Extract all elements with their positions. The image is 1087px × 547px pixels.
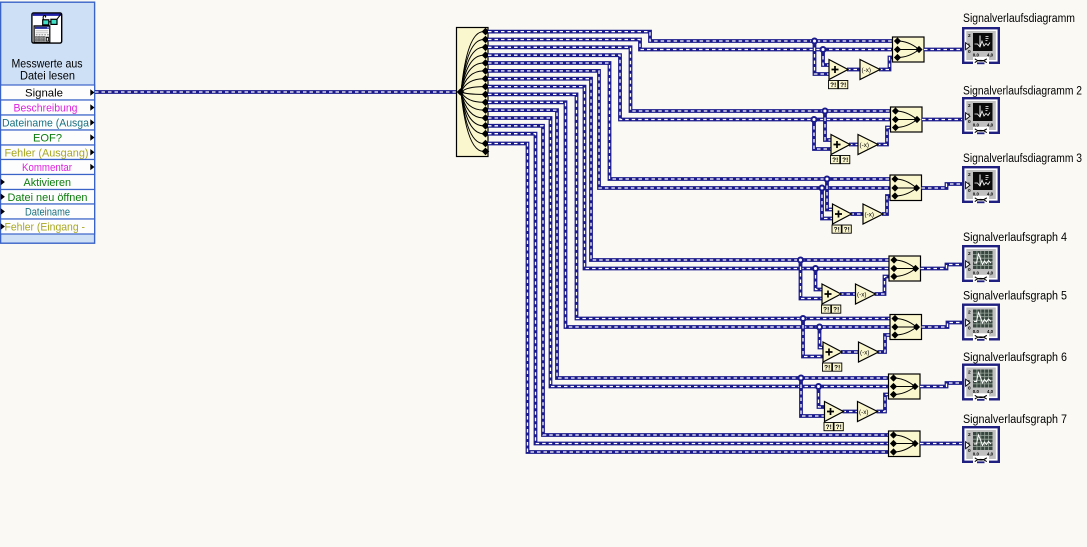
- wire splitter row 9: [488, 94, 895, 318]
- svg-text:(-x): (-x): [860, 349, 869, 356]
- svg-text:0: 0: [968, 49, 971, 55]
- express VI icon box: [32, 13, 62, 43]
- svg-text:0,0: 0,0: [973, 329, 980, 334]
- junction J1a: [812, 39, 817, 44]
- svg-text:0,0: 0,0: [973, 122, 980, 127]
- wire branch bottom chain 6: [819, 387, 825, 408]
- express VI Messwerte aus Datei lesen (body): [1, 2, 95, 243]
- wire branch top chain 3: [827, 179, 833, 210]
- junction J4b: [813, 266, 818, 271]
- svg-text:?!: ?!: [836, 424, 842, 431]
- label Signalverlaufsgraph 6: [963, 352, 1067, 364]
- wire branch bottom chain 3: [822, 188, 833, 219]
- merge signals M7: [889, 431, 921, 457]
- svg-text:(-x): (-x): [862, 67, 871, 74]
- junction J6b: [816, 384, 821, 389]
- junction J2a: [823, 109, 828, 114]
- svg-text:Fehler (Eingang -: Fehler (Eingang -: [5, 221, 86, 233]
- wire splitter row 13: [488, 126, 893, 435]
- svg-text:Fehler (Ausgang): Fehler (Ausgang): [5, 147, 89, 159]
- wire splitter row 15: [488, 144, 893, 453]
- svg-text:Signalverlaufsgraph 6: Signalverlaufsgraph 6: [963, 352, 1067, 364]
- svg-text:2: 2: [968, 172, 971, 178]
- wire splitter row 3: [488, 47, 895, 111]
- wire branch top chain 2: [825, 111, 831, 140]
- label Signalverlaufsgraph 4: [963, 232, 1068, 244]
- svg-text:4,0: 4,0: [987, 451, 994, 456]
- wire scale to merge chain 2: [877, 128, 896, 145]
- label Signalverlaufsdiagramm 2: [963, 85, 1082, 97]
- svg-text:2: 2: [968, 432, 971, 438]
- scale node S5: [859, 342, 879, 362]
- wire merge to chart 4: [921, 265, 963, 269]
- wire splitter row 4: [488, 55, 895, 119]
- svg-text:0,0: 0,0: [973, 52, 980, 57]
- svg-text:0,0: 0,0: [973, 451, 980, 456]
- wire branch bottom chain 1: [823, 50, 829, 66]
- label Signalverlaufsgraph 5: [963, 290, 1067, 302]
- svg-text:?!: ?!: [840, 82, 846, 89]
- svg-text:4,0: 4,0: [987, 389, 994, 394]
- wire splitter row 7: [488, 79, 894, 260]
- wire branch top chain 4: [801, 260, 823, 299]
- output row Signale: [1, 85, 95, 100]
- svg-text:2: 2: [968, 310, 971, 316]
- output row Fehler (Ausgang): [1, 145, 95, 160]
- waveform chart terminal Signalverlaufsdiagramm 2: [962, 97, 1000, 134]
- junction J6a: [799, 376, 804, 381]
- wire branch bottom chain 5: [820, 327, 824, 348]
- svg-text:Signalverlaufsdiagramm 3: Signalverlaufsdiagramm 3: [963, 153, 1082, 165]
- svg-text:?!: ?!: [832, 157, 838, 164]
- svg-text:0,0: 0,0: [973, 191, 980, 196]
- junction J4a: [798, 258, 803, 263]
- merge signals M2: [891, 107, 923, 132]
- svg-text:Aktivieren: Aktivieren: [24, 177, 72, 189]
- add node A6: [825, 402, 844, 422]
- add node A1: [829, 60, 848, 80]
- wire add to scale chain 3: [851, 212, 866, 216]
- wire branch bottom chain 4: [816, 269, 823, 290]
- svg-text:?!: ?!: [824, 365, 830, 372]
- scale node S3: [863, 204, 883, 224]
- wire splitter row 2: [488, 40, 897, 50]
- svg-text:Dateiname: Dateiname: [25, 206, 70, 218]
- svg-text:?!: ?!: [823, 307, 829, 314]
- scale node S2: [858, 135, 878, 155]
- scale node S1: [860, 60, 880, 80]
- coercion markers A3: [832, 225, 851, 234]
- coercion markers A6: [824, 423, 843, 432]
- wire branch top chain 6: [801, 378, 825, 416]
- wire scale to merge chain 1: [879, 58, 898, 70]
- svg-text:?!: ?!: [834, 227, 840, 234]
- junction J3a: [825, 177, 830, 182]
- scale node S6: [858, 402, 878, 422]
- wire add to scale chain 1: [847, 68, 862, 72]
- merge signals M3: [890, 175, 922, 201]
- waveform chart terminal Signalverlaufsgraph 7: [962, 426, 1000, 463]
- waveform chart terminal Signalverlaufsgraph 4: [962, 245, 1000, 282]
- svg-text:0: 0: [968, 326, 971, 332]
- svg-text:?!: ?!: [826, 424, 832, 431]
- coercion markers A5: [823, 363, 842, 372]
- add node A4: [822, 284, 841, 304]
- svg-text:0,0: 0,0: [973, 389, 980, 394]
- svg-text:(-x): (-x): [859, 409, 868, 416]
- coercion markers A4: [822, 305, 841, 314]
- svg-text:0: 0: [968, 448, 971, 454]
- wire merge to chart 6: [920, 383, 962, 387]
- wire splitter row 5: [488, 63, 895, 179]
- svg-text:4,0: 4,0: [987, 52, 994, 57]
- svg-text:2: 2: [968, 251, 971, 257]
- svg-text:Kommentar: Kommentar: [22, 162, 72, 174]
- output row Kommentar: [1, 160, 95, 175]
- svg-text:Beschreibung: Beschreibung: [14, 102, 78, 114]
- wire merge to chart 7: [920, 442, 962, 446]
- wire branch bottom chain 2: [814, 120, 831, 150]
- merge signals M5: [890, 315, 922, 340]
- waveform chart terminal Signalverlaufsgraph 5: [962, 304, 1000, 341]
- wire merge to chart 1: [924, 48, 962, 52]
- wire scale to merge chain 5: [878, 335, 896, 352]
- spreadsheet file icon: [34, 26, 50, 42]
- svg-text:EOF?: EOF?: [33, 132, 62, 144]
- wire scale to merge chain 6: [877, 395, 894, 412]
- wire branch top chain 1: [815, 41, 830, 74]
- wire scale to merge chain 4: [875, 277, 895, 295]
- splitter output terminals: [482, 28, 490, 155]
- wire splitter row 12: [488, 118, 893, 387]
- splitter input terminal: [457, 88, 465, 96]
- svg-text:?!: ?!: [833, 307, 839, 314]
- wire branch top chain 5: [803, 319, 823, 357]
- wire Signale to splitter: [95, 90, 457, 94]
- output row Dateiname (Ausga: [1, 115, 95, 130]
- waveform chart terminal Signalverlaufsgraph 6: [962, 364, 1000, 401]
- svg-text:Signalverlaufsdiagramm 2: Signalverlaufsdiagramm 2: [963, 85, 1082, 97]
- wire splitter row 1: [488, 32, 897, 41]
- svg-text:4,0: 4,0: [987, 329, 994, 334]
- coercion markers A1: [829, 81, 848, 90]
- coercion markers A2: [831, 156, 850, 165]
- label Signalverlaufsgraph 7: [963, 414, 1067, 426]
- wire add to scale chain 4: [840, 292, 858, 296]
- svg-text:?!: ?!: [842, 157, 848, 164]
- svg-text:0: 0: [968, 119, 971, 125]
- merge signals M4: [889, 256, 921, 281]
- wire scale to merge chain 3: [882, 196, 895, 214]
- svg-text:Signale: Signale: [25, 87, 63, 99]
- junction J2b: [812, 117, 817, 122]
- label Signalverlaufsdiagramm 3: [963, 153, 1082, 165]
- wire splitter row 10: [488, 102, 895, 327]
- wire splitter row 14: [488, 134, 893, 444]
- svg-text:Signalverlaufsdiagramm: Signalverlaufsdiagramm: [963, 13, 1075, 25]
- wire merge to chart 2: [922, 118, 962, 122]
- svg-text:4,0: 4,0: [987, 270, 994, 275]
- svg-text:2: 2: [968, 103, 971, 109]
- merge signals M6: [889, 374, 921, 399]
- svg-text:?!: ?!: [830, 82, 836, 89]
- wire add to scale chain 2: [849, 143, 860, 147]
- junction J3b: [820, 186, 825, 191]
- wire splitter row 6: [488, 71, 895, 188]
- svg-text:Dateiname (Ausga: Dateiname (Ausga: [2, 117, 90, 129]
- waveform chart terminal Signalverlaufsdiagramm 3: [962, 166, 1000, 203]
- label Signalverlaufsdiagramm: [963, 13, 1075, 25]
- svg-text:(-x): (-x): [860, 142, 869, 149]
- input row Fehler (Eingang -: [1, 219, 95, 234]
- output row Beschreibung: [1, 100, 95, 115]
- junction J5a: [801, 316, 806, 321]
- svg-text:0: 0: [968, 188, 971, 194]
- wire add to scale chain 5: [841, 350, 861, 354]
- glasses icon: [43, 14, 61, 25]
- wire splitter row 11: [488, 110, 893, 378]
- wire merge to chart 5: [922, 323, 963, 328]
- svg-text:Signalverlaufsgraph 7: Signalverlaufsgraph 7: [963, 414, 1067, 426]
- svg-text:0,0: 0,0: [973, 270, 980, 275]
- junction J5b: [817, 325, 822, 330]
- svg-text:(-x): (-x): [857, 291, 866, 298]
- svg-text:0: 0: [968, 386, 971, 392]
- wire add to scale chain 6: [843, 410, 860, 414]
- svg-text:4,0: 4,0: [987, 122, 994, 127]
- svg-text:(-x): (-x): [865, 211, 874, 218]
- merge signals M1: [893, 37, 925, 62]
- add node A5: [823, 342, 842, 362]
- output row EOF?: [1, 130, 95, 145]
- svg-text:2: 2: [968, 33, 971, 39]
- wire merge to chart 3: [922, 184, 963, 188]
- svg-text:?!: ?!: [844, 227, 850, 234]
- svg-text:0: 0: [968, 267, 971, 273]
- add node A2: [831, 135, 850, 155]
- svg-text:Datei neu öffnen: Datei neu öffnen: [8, 192, 88, 204]
- svg-text:Signalverlaufsgraph 5: Signalverlaufsgraph 5: [963, 290, 1067, 302]
- waveform chart terminal Signalverlaufsdiagramm: [962, 27, 1000, 64]
- wire splitter row 8: [488, 87, 894, 269]
- svg-text:2: 2: [968, 370, 971, 376]
- input row Aktivieren: [1, 175, 95, 190]
- junction J1b: [821, 47, 826, 52]
- svg-text:4,0: 4,0: [987, 191, 994, 196]
- input row Dateiname: [1, 204, 95, 219]
- scale node S4: [856, 284, 876, 304]
- svg-text:?!: ?!: [834, 365, 840, 372]
- add node A3: [833, 204, 852, 224]
- input row Datei neu öffnen: [1, 190, 95, 205]
- title Messwerte aus Datei lesen: [12, 57, 83, 83]
- svg-text:Signalverlaufsgraph 4: Signalverlaufsgraph 4: [963, 232, 1068, 244]
- svg-text:Datei lesen: Datei lesen: [20, 69, 75, 83]
- split signals block: [457, 28, 489, 157]
